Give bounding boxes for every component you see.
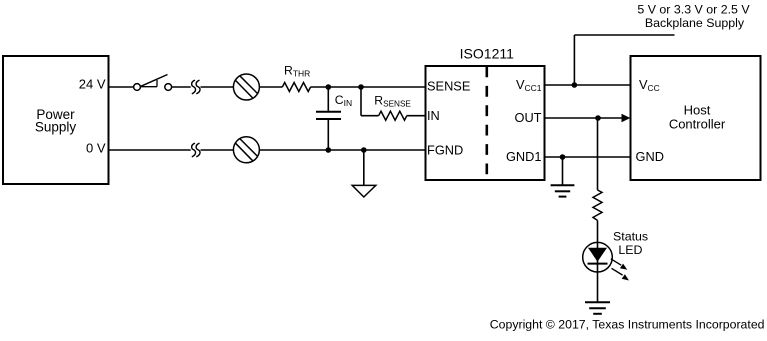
wire 0V from power supply to break bbox=[109, 149, 191, 151]
wire from switch to break bbox=[172, 86, 191, 88]
resistor RSENSE with branch wire to IN pin bbox=[361, 87, 426, 120]
wire from terminal 2 to FGND pin bbox=[259, 149, 425, 151]
wire 24V from power supply to switch bbox=[109, 86, 134, 88]
label backplane supply bbox=[637, 3, 750, 31]
svg-text:LED: LED bbox=[618, 243, 642, 257]
svg-text:IN: IN bbox=[427, 108, 440, 123]
wire break symbol on 24V line bbox=[192, 80, 200, 94]
LED emission arrows bbox=[611, 259, 629, 281]
arrow into host controller bbox=[622, 114, 631, 122]
svg-text:Backplane Supply: Backplane Supply bbox=[645, 16, 745, 30]
junction node CIN bottom connection bbox=[326, 147, 332, 153]
svg-text:Supply: Supply bbox=[35, 120, 77, 135]
svg-text:Copyright © 2017, Texas Instru: Copyright © 2017, Texas Instruments Inco… bbox=[490, 318, 765, 332]
host controller box bbox=[631, 56, 761, 180]
svg-text:GND: GND bbox=[636, 149, 664, 164]
svg-text:Controller: Controller bbox=[669, 117, 726, 132]
svg-text:CIN: CIN bbox=[335, 93, 352, 108]
wire from break to field terminal bbox=[201, 86, 234, 88]
switch S1 bbox=[134, 75, 172, 91]
svg-text:SENSE: SENSE bbox=[427, 79, 470, 94]
ground symbol GND1 (earth) bbox=[551, 157, 575, 197]
wire GND1 to host GND bbox=[545, 156, 631, 158]
svg-text:ISO1211: ISO1211 bbox=[460, 45, 514, 61]
svg-text:VCC1: VCC1 bbox=[516, 77, 542, 93]
field terminal connector J1 (hatched circle) bbox=[233, 74, 259, 100]
ground symbol LED (earth) bbox=[585, 302, 610, 314]
wire OUT to host controller bbox=[545, 117, 624, 119]
junction node FGND ground tap bbox=[361, 147, 367, 153]
label Status LED bbox=[613, 230, 648, 258]
junction node status LED tap bbox=[595, 115, 601, 121]
svg-text:Status: Status bbox=[613, 230, 648, 244]
junction node backplane supply tap bbox=[572, 82, 578, 88]
field terminal connector J2 (hatched circle) bbox=[233, 137, 259, 163]
svg-text:RTHR: RTHR bbox=[284, 63, 310, 78]
svg-text:0 V: 0 V bbox=[86, 141, 106, 156]
wire VCC1 to host VCC bbox=[545, 84, 631, 86]
wire from RTHR to SENSE pin bbox=[311, 86, 426, 88]
wire break symbol on 0V line bbox=[192, 143, 200, 157]
junction node CIN tap bbox=[326, 84, 332, 90]
resistor R status (vertical) bbox=[593, 190, 602, 220]
svg-text:24 V: 24 V bbox=[79, 77, 106, 92]
svg-text:FGND: FGND bbox=[427, 142, 463, 157]
junction node RSENSE tap bbox=[358, 84, 364, 90]
wire LED to ground bbox=[597, 272, 599, 302]
wire from terminal to RTHR bbox=[259, 86, 282, 88]
wire from break to field terminal 2 bbox=[201, 149, 234, 151]
capacitor CIN bbox=[316, 87, 352, 150]
wire to backplane supply bbox=[574, 35, 674, 85]
IC U1 ISO1211 box bbox=[426, 45, 545, 180]
junction node GND1 ground tap bbox=[560, 154, 566, 160]
resistor RTHR bbox=[282, 63, 310, 91]
svg-text:Host: Host bbox=[684, 103, 711, 118]
svg-text:OUT: OUT bbox=[514, 110, 541, 125]
field ground symbol (open triangle) bbox=[352, 150, 376, 197]
svg-text:RSENSE: RSENSE bbox=[374, 93, 411, 108]
svg-text:5 V or 3.3 V or 2.5 V: 5 V or 3.3 V or 2.5 V bbox=[637, 3, 750, 17]
svg-text:GND1: GND1 bbox=[506, 149, 542, 164]
wire OUT junction to status resistor bbox=[597, 118, 599, 190]
power supply box PS bbox=[3, 56, 109, 184]
svg-text:VCC: VCC bbox=[639, 77, 660, 93]
status LED D1 bbox=[583, 242, 613, 272]
wire resistor to LED bbox=[597, 220, 599, 248]
